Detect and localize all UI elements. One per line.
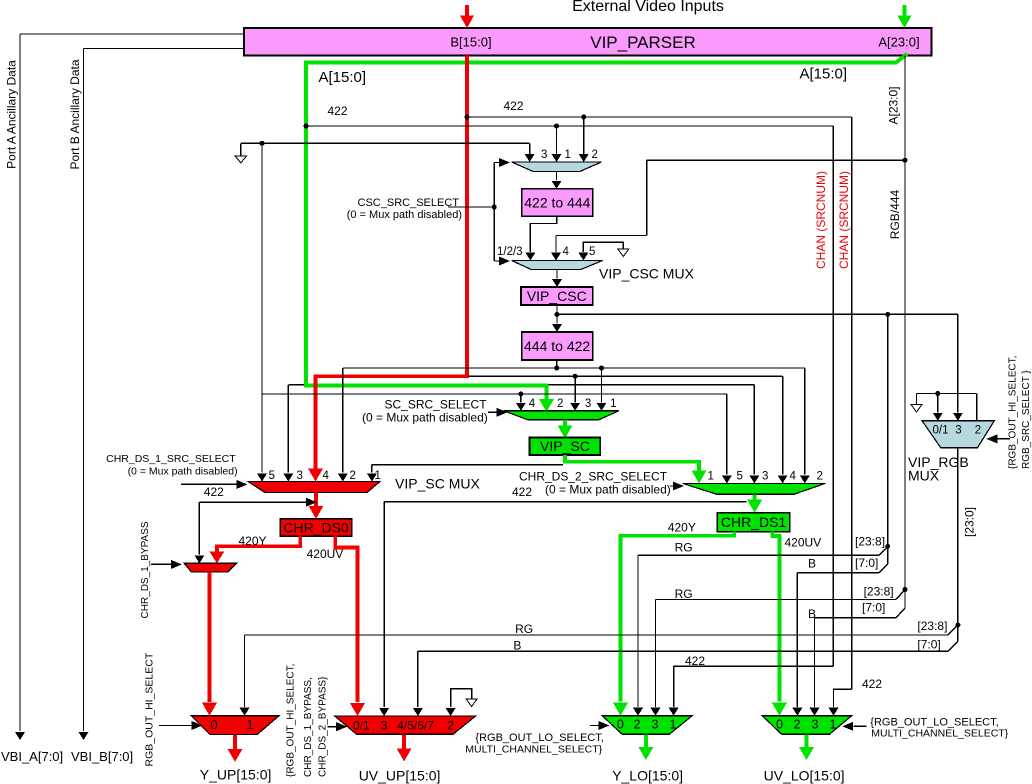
svg-text:VBI_A[7:0]: VBI_A[7:0] [1,749,63,764]
svg-text:5: 5 [269,470,275,482]
svg-text:MUX: MUX [908,468,940,484]
svg-text:CHR_DS0: CHR_DS0 [283,519,349,535]
svg-text:2: 2 [557,398,563,410]
svg-text:3: 3 [652,718,659,732]
svg-text:422 to 444: 422 to 444 [524,194,590,210]
svg-text:2: 2 [634,718,641,732]
svg-text:1: 1 [247,717,254,732]
svg-text:4: 4 [790,471,797,483]
svg-text:3: 3 [541,149,547,161]
svg-text:2: 2 [592,149,598,161]
svg-text:[23:0]: [23:0] [963,507,977,537]
svg-text:A[23:0]: A[23:0] [878,35,919,50]
svg-text:{RGB_OUT_HI_SELECT,: {RGB_OUT_HI_SELECT, [1007,356,1018,469]
svg-text:422: 422 [328,104,348,118]
svg-text:0/1: 0/1 [933,425,949,437]
svg-text:(0 = Mux path disabled): (0 = Mux path disabled) [545,483,671,497]
svg-text:[7:0]: [7:0] [855,556,878,570]
svg-text:1: 1 [670,718,677,732]
svg-text:[23:8]: [23:8] [864,585,894,599]
svg-text:3: 3 [812,718,819,732]
svg-text:1: 1 [565,149,571,161]
svg-text:A[15:0]: A[15:0] [319,69,367,86]
svg-text:4: 4 [529,398,536,410]
svg-text:[23:8]: [23:8] [855,535,885,549]
svg-text:CHR_DS_2_SRC_SELECT: CHR_DS_2_SRC_SELECT [519,470,668,484]
svg-text:VIP_SC MUX: VIP_SC MUX [395,476,480,492]
svg-text:422: 422 [512,485,532,499]
svg-text:1/2/3: 1/2/3 [497,246,523,258]
svg-text:CHR_DS1: CHR_DS1 [721,514,787,530]
svg-text:Y_UP[15:0]: Y_UP[15:0] [200,767,272,783]
svg-text:2: 2 [350,470,356,482]
svg-text:0: 0 [210,717,217,732]
svg-text:0: 0 [776,718,783,732]
svg-text:420Y: 420Y [239,534,267,548]
svg-text:VIP_SC: VIP_SC [540,438,590,454]
svg-text:420UV: 420UV [307,547,344,561]
svg-text:[7:0]: [7:0] [862,601,885,615]
svg-text:Y_LO[15:0]: Y_LO[15:0] [612,768,683,784]
svg-text:2: 2 [447,719,454,733]
svg-text:1: 1 [708,471,714,483]
svg-text:CHR_DS_1_SRC_SELECT: CHR_DS_1_SRC_SELECT [106,453,236,465]
svg-text:(0 = Mux path disabled): (0 = Mux path disabled) [347,209,462,221]
svg-text:444 to 422: 444 to 422 [524,338,590,354]
svg-text:5: 5 [737,471,743,483]
svg-text:422: 422 [204,485,224,499]
svg-text:2: 2 [975,425,981,437]
svg-text:4: 4 [563,246,570,258]
svg-text:RG: RG [675,587,693,601]
svg-text:1: 1 [375,470,381,482]
svg-text:CSC_SRC_SELECT: CSC_SRC_SELECT [358,197,460,209]
svg-text:CHR_DS_1_BYPASS,: CHR_DS_1_BYPASS, [303,677,314,777]
svg-text:420UV: 420UV [785,536,822,550]
svg-text:RG: RG [515,622,533,636]
svg-text:0/1: 0/1 [353,719,370,733]
svg-text:3: 3 [381,719,388,733]
svg-text:CHR_DS_2_BYPASS}: CHR_DS_2_BYPASS} [318,676,329,777]
svg-text:B: B [513,639,521,653]
svg-text:VIP_CSC MUX: VIP_CSC MUX [599,266,695,282]
svg-text:4/5/6/7: 4/5/6/7 [397,719,434,733]
svg-text:VIP_CSC: VIP_CSC [527,288,587,304]
svg-text:RG: RG [675,541,693,555]
svg-text:A[23:0]: A[23:0] [887,86,901,124]
svg-text:CHR_DS_1_BYPASS: CHR_DS_1_BYPASS [140,521,151,618]
svg-text:RGB/444: RGB/444 [888,189,902,239]
svg-text:CHAN (SRCNUM): CHAN (SRCNUM) [814,171,828,269]
svg-text:(0 = Mux path disabled): (0 = Mux path disabled) [128,466,238,478]
svg-text:B: B [808,607,816,621]
svg-text:3: 3 [297,470,303,482]
svg-text:3: 3 [762,471,768,483]
svg-text:UV_UP[15:0]: UV_UP[15:0] [359,768,441,784]
svg-text:{RGB_OUT_HI_SELECT,: {RGB_OUT_HI_SELECT, [285,664,296,777]
svg-text:UV_LO[15:0]: UV_LO[15:0] [764,768,845,784]
svg-text:B[15:0]: B[15:0] [450,35,491,50]
svg-text:RGB_SRC_SELECT }: RGB_SRC_SELECT } [1021,370,1032,469]
svg-text:3: 3 [585,398,591,410]
svg-text:1: 1 [610,398,616,410]
svg-text:RGB_OUT_HI_SELECT: RGB_OUT_HI_SELECT [144,652,156,766]
svg-text:VIP_PARSER: VIP_PARSER [590,33,696,52]
svg-text:B: B [808,557,816,571]
svg-text:3: 3 [955,425,961,437]
svg-text:2: 2 [817,471,823,483]
svg-text:(0 = Mux path disabled): (0 = Mux path disabled) [362,411,488,425]
svg-text:Port A Ancillary Data: Port A Ancillary Data [5,60,19,169]
svg-text:External Video Inputs: External Video Inputs [572,0,724,15]
svg-text:[23:8]: [23:8] [917,619,947,633]
svg-text:422: 422 [685,654,705,668]
svg-text:MULTI_CHANNEL_SELECT}: MULTI_CHANNEL_SELECT} [871,728,1008,740]
svg-text:CHAN (SRCNUM): CHAN (SRCNUM) [837,171,851,269]
svg-text:422: 422 [504,99,524,113]
svg-text:{RGB_OUT_LO_SELECT,: {RGB_OUT_LO_SELECT, [475,732,603,744]
svg-text:1: 1 [830,718,837,732]
svg-text:422: 422 [862,677,882,691]
svg-text:5: 5 [589,246,595,258]
svg-text:420Y: 420Y [668,521,696,535]
svg-text:SC_SRC_SELECT: SC_SRC_SELECT [385,398,488,412]
svg-text:VBI_B[7:0]: VBI_B[7:0] [71,749,133,764]
svg-text:MULTI_CHANNEL_SELECT}: MULTI_CHANNEL_SELECT} [465,744,602,756]
svg-text:[7:0]: [7:0] [917,638,940,652]
svg-text:4: 4 [323,470,330,482]
svg-text:Port B Ancillary Data: Port B Ancillary Data [68,59,82,169]
svg-text:2: 2 [794,718,801,732]
svg-text:A[15:0]: A[15:0] [800,66,848,83]
svg-text:0: 0 [617,718,624,732]
